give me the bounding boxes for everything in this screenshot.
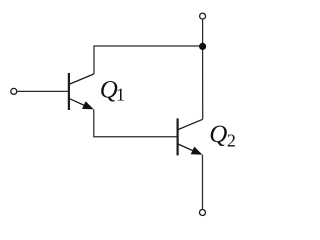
transistor Q1 [68,73,94,110]
wire junction to Q2 collector [202,46,204,119]
svg-text:1: 1 [116,84,125,104]
wire Q2 emitter to bottom terminal [202,155,204,209]
input terminal [11,88,17,94]
wire base Q1 [17,90,68,92]
wire Q1 collector riser [94,46,203,74]
wire top terminal to junction [202,20,204,47]
top terminal [200,13,206,19]
bottom terminal [200,210,206,216]
transistor Q2 [177,118,203,155]
svg-text:Q: Q [209,121,227,148]
wire Q1 emitter to Q2 base [94,109,177,136]
svg-text:2: 2 [227,130,236,150]
junction node [199,43,206,50]
